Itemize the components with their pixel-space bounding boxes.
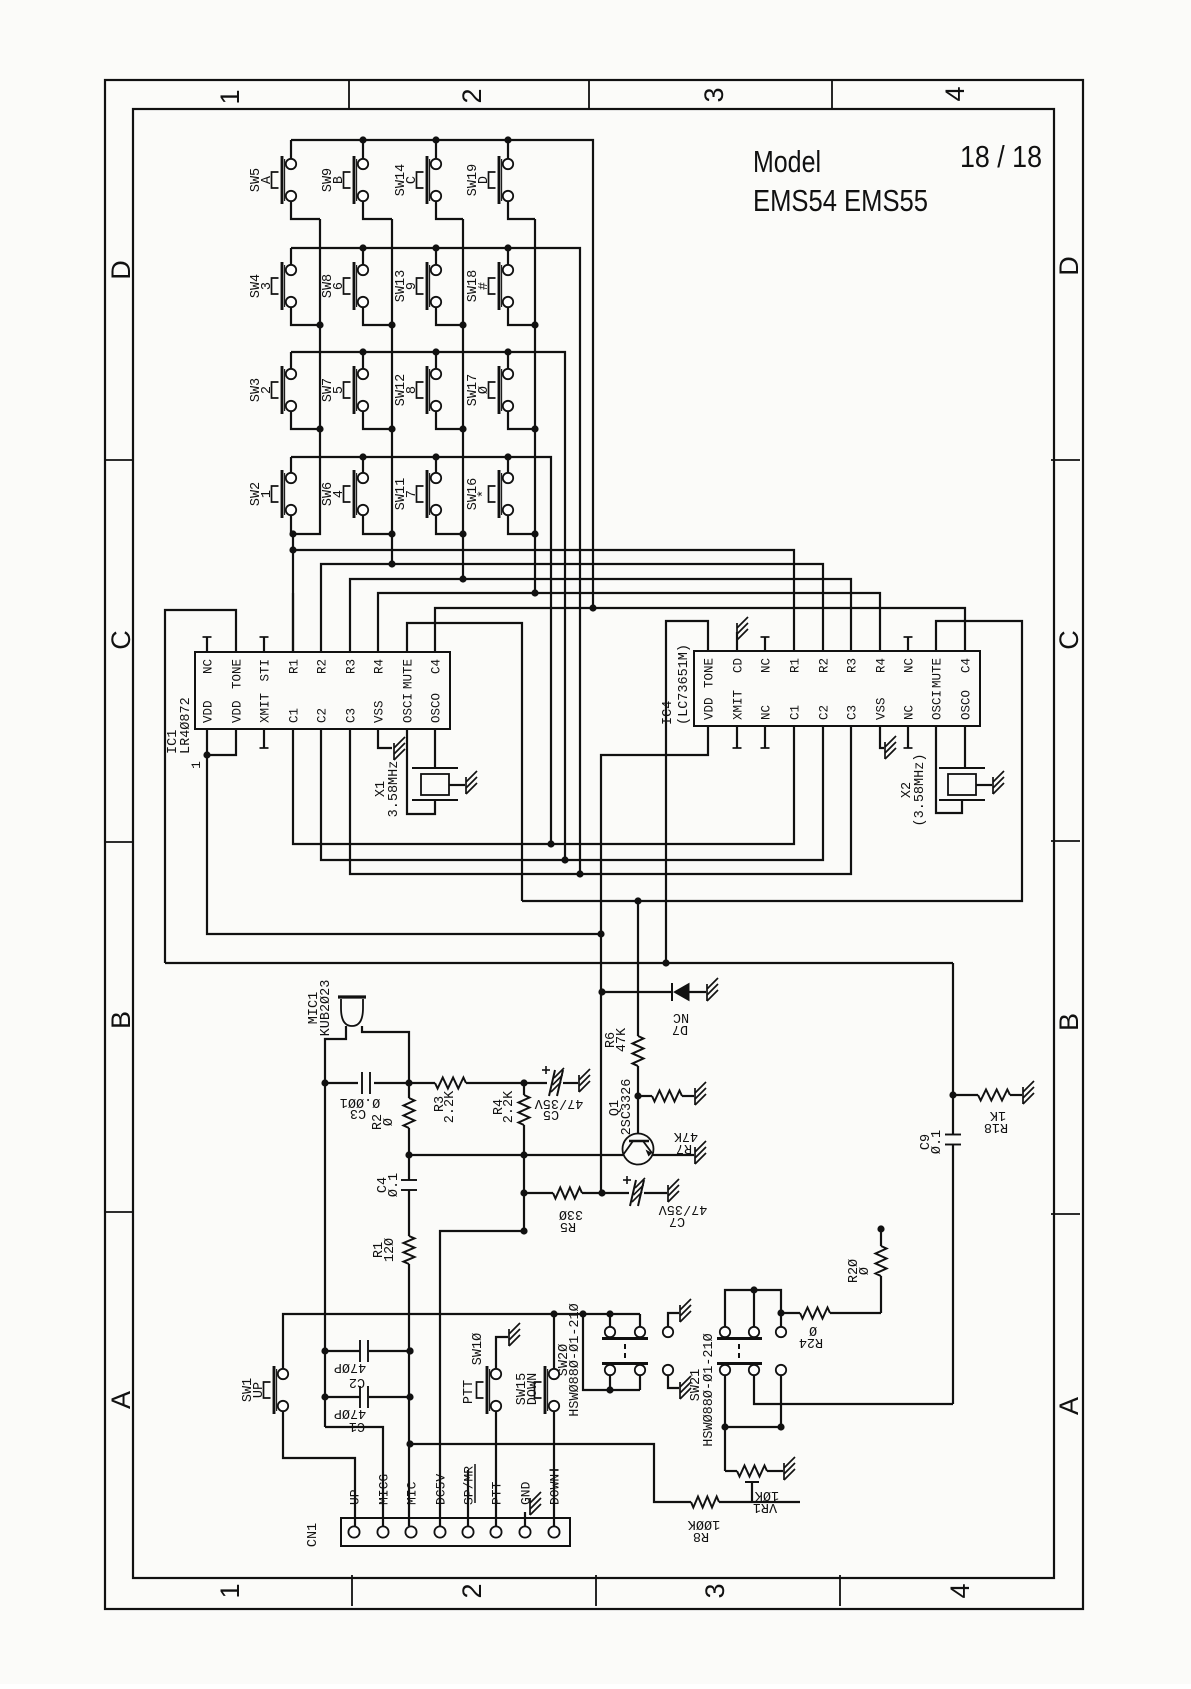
pin IC1 XMIT stub — [263, 729, 265, 748]
wire IC1 R3 riser and net R3 to IC4 — [350, 579, 851, 652]
wire SW7 bottom terminal jog — [363, 411, 392, 429]
switch SW12 key 8 — [426, 366, 429, 414]
wire SW5 bottom terminal jog — [291, 201, 320, 219]
svg-text:C4: C4 — [430, 659, 444, 674]
svg-text:CD: CD — [732, 658, 746, 673]
resistor R4 2.2K — [523, 1083, 525, 1095]
pin CN1 SP/MR — [462, 1526, 473, 1537]
svg-text:B: B — [332, 176, 347, 184]
wire C3 right lead — [374, 1082, 409, 1084]
wire R3 right lead — [466, 1082, 524, 1084]
junction SW11 on column line — [459, 530, 466, 537]
svg-text:C2: C2 — [349, 1374, 365, 1389]
svg-text:12Ø: 12Ø — [383, 1238, 398, 1262]
junction SW8 on row bus — [359, 244, 366, 251]
svg-text:VDD: VDD — [202, 700, 216, 723]
switch SW16 key * — [498, 470, 501, 518]
junction C2 left — [321, 1347, 328, 1354]
svg-text:4: 4 — [332, 490, 347, 498]
junction row bus4 on C1 net — [547, 840, 554, 847]
junction SW12 on row bus — [432, 348, 439, 355]
wire row bus 3 (keys 2 5 8 0) to C2 net — [291, 352, 565, 860]
wire SW18 bottom terminal jog — [508, 307, 535, 325]
svg-text:47ØP: 47ØP — [334, 1359, 366, 1374]
svg-text:3: 3 — [699, 87, 729, 102]
junction row bus3 on C2 net — [561, 856, 568, 863]
junction SW7 on column line — [388, 425, 395, 432]
svg-text:KUB2Ø23: KUB2Ø23 — [319, 980, 334, 1037]
resistor R6 47K — [633, 1036, 644, 1066]
junction SW6 on row bus — [359, 453, 366, 460]
capacitor C9 0.1 — [945, 1134, 961, 1136]
switch SW17 key Ø — [498, 366, 501, 414]
wire row bus 2 (keys 3 6 9 #) to C3 net — [291, 248, 580, 874]
svg-text:47K: 47K — [615, 1027, 630, 1052]
svg-text:2SC3326: 2SC3326 — [620, 1079, 635, 1136]
wire VR1 feed — [724, 1427, 726, 1471]
pin IC4 NC stub top1 — [764, 637, 766, 651]
wire R7 lead — [638, 1095, 652, 1097]
tick DOWN wire — [550, 1469, 559, 1471]
VR1 wiper — [745, 1481, 759, 1483]
junction SW18 on column line — [531, 321, 538, 328]
wire X1 case tap — [449, 784, 465, 786]
wire IC1 R1 pin riser — [292, 593, 294, 652]
ground R18 — [1022, 1087, 1024, 1104]
svg-text:2: 2 — [260, 386, 275, 394]
junction SW13 on column line — [459, 321, 466, 328]
wire TONE net bottom to SW21 — [754, 1375, 953, 1404]
wire row bus 1 (keys A B C D) to C4 net — [291, 140, 593, 608]
wire SW21 third pair — [780, 1313, 782, 1327]
wire IC1 MUTE riser and route down — [407, 623, 522, 901]
junction MIC line at C2 — [406, 1347, 413, 1354]
wire SW21 top bus — [725, 1290, 781, 1327]
svg-text:MUTE: MUTE — [402, 659, 416, 689]
switch SW21 link dashed — [738, 1344, 740, 1360]
svg-text:C5: C5 — [543, 1106, 559, 1121]
junction SW18 on row bus — [504, 244, 511, 251]
switch SW1 UP — [273, 1366, 276, 1414]
junction SW21 third top to R24 — [777, 1309, 784, 1316]
pin CN1 DC5V — [434, 1526, 445, 1537]
junction MICG node at C3 — [321, 1079, 328, 1086]
wire SW6 top terminal to row bus — [362, 457, 364, 473]
svg-text:EMS54 EMS55: EMS54 EMS55 — [753, 183, 928, 218]
wire IC4 OSCO route — [964, 726, 966, 768]
svg-text:VSS: VSS — [373, 700, 387, 723]
wire SW1 bottom terminal to CN1 UP — [283, 1411, 355, 1526]
wire SW8 top terminal to row bus — [362, 248, 364, 265]
wire SW2 top terminal to row bus — [290, 457, 292, 473]
wire base line — [409, 1154, 623, 1156]
wire column line 1 (R1 net) — [293, 219, 320, 534]
resistor R24 0 — [781, 1312, 800, 1314]
svg-text:C7: C7 — [669, 1213, 685, 1228]
switch SW20 lower contacts — [605, 1365, 615, 1375]
wire SW11 bottom terminal jog — [436, 515, 463, 534]
svg-text:C3: C3 — [350, 1105, 366, 1120]
ground VR1 — [783, 1463, 785, 1480]
switch SW21 lower contacts — [720, 1365, 730, 1375]
resistor R18 1K — [978, 1090, 1010, 1101]
svg-text:1: 1 — [189, 761, 204, 769]
wire MIC to R8 line — [410, 1444, 691, 1502]
resistor R8 100K — [691, 1497, 719, 1508]
wire SW19 top terminal to row bus — [507, 140, 509, 159]
wire IC1 C1 pin route — [293, 729, 551, 844]
wire VDD vertical to audio section — [600, 934, 602, 1193]
svg-text:MUTE: MUTE — [931, 658, 945, 688]
svg-text:TONE: TONE — [231, 659, 245, 689]
wire VDD rail down and right — [207, 755, 601, 934]
junction SW11 on row bus — [432, 453, 439, 460]
junction SW14 on row bus — [432, 136, 439, 143]
wire R3 left lead — [409, 1082, 435, 1084]
wire R4 node to DC5V node — [523, 1155, 525, 1231]
junction SW17 on column line — [531, 425, 538, 432]
wire VR1 left lead — [725, 1470, 737, 1472]
svg-text:NC: NC — [760, 705, 774, 720]
wire row bus 4 (keys 1 4 7 *) to C1 net — [291, 457, 551, 844]
switch SW20 link dashed — [624, 1344, 626, 1360]
junction SW16 on column line — [531, 530, 538, 537]
wire SW9 bottom terminal jog — [363, 201, 392, 219]
svg-text:R1: R1 — [288, 659, 302, 674]
pin CN1 UP — [348, 1526, 359, 1537]
pin IC1 NC stub — [206, 637, 208, 652]
capacitor C3 0.001 — [361, 1072, 363, 1094]
svg-text:R3: R3 — [345, 659, 359, 674]
svg-text:C1: C1 — [349, 1418, 365, 1433]
wire SW15 bottom terminal to CN1 DOWN — [553, 1411, 555, 1526]
junction R4 node on base line — [520, 1151, 527, 1158]
zone divider ticks right strip — [1051, 459, 1080, 461]
switch SW14 key C — [426, 156, 429, 204]
svg-text:C3: C3 — [846, 705, 860, 720]
svg-text:C4: C4 — [960, 658, 974, 673]
svg-text:B: B — [1054, 1013, 1084, 1031]
svg-text:C2: C2 — [316, 708, 330, 723]
svg-text:OSCO: OSCO — [430, 693, 444, 723]
wire SW3 top terminal to row bus — [290, 352, 292, 369]
wire IC1 OSCI route — [407, 729, 435, 814]
svg-text:Ø: Ø — [858, 1267, 873, 1275]
wire C7 to ground — [644, 1192, 667, 1194]
wire R6 to Q1 collector — [637, 1066, 639, 1134]
wire column line 1 lower segment to R1 pin — [292, 534, 294, 652]
svg-text:C: C — [405, 176, 420, 184]
switch SW11 key 7 — [426, 470, 429, 518]
junction SW6 on column line — [388, 530, 395, 537]
svg-text:2: 2 — [457, 1583, 487, 1598]
junction SW12 on column line — [459, 425, 466, 432]
svg-text:C: C — [1054, 630, 1084, 650]
svg-text:HSWØ88Ø-Ø1-21Ø: HSWØ88Ø-Ø1-21Ø — [702, 1333, 717, 1446]
wire SW13 top terminal to row bus — [435, 248, 437, 265]
wire SW21 lower link — [725, 1426, 781, 1428]
switch SW13 key 9 — [426, 262, 429, 310]
junction VDD bracket — [203, 751, 210, 758]
svg-text:47ØP: 47ØP — [334, 1405, 366, 1420]
switch SW6 key 4 — [353, 470, 356, 518]
pin CN1 MIC — [405, 1526, 416, 1537]
svg-text:Model: Model — [753, 144, 821, 179]
svg-text:XMIT: XMIT — [732, 689, 746, 720]
svg-text:5: 5 — [332, 386, 347, 394]
svg-text:R7: R7 — [676, 1140, 692, 1155]
wire IC1 R2 riser and net R2 to IC4 — [321, 564, 823, 652]
svg-text:OSCI: OSCI — [931, 690, 945, 720]
svg-text:18 / 18: 18 / 18 — [960, 139, 1042, 174]
svg-text:R4: R4 — [373, 659, 387, 674]
svg-text:NC: NC — [202, 659, 216, 674]
ground X1 case — [465, 777, 467, 794]
switch SW4 key 3 — [281, 262, 284, 310]
junction MIC node at C3 — [405, 1079, 412, 1086]
svg-text:HSWØ88Ø-Ø1-21Ø: HSWØ88Ø-Ø1-21Ø — [568, 1303, 583, 1416]
junction SW8 on column line — [388, 321, 395, 328]
svg-text:VDD: VDD — [703, 697, 717, 720]
wire SW8 bottom terminal jog — [363, 307, 392, 325]
junction column4 on R4 net — [531, 589, 538, 596]
svg-text:LR4Ø872: LR4Ø872 — [179, 697, 194, 754]
junction R2/C4 node on base line — [405, 1151, 412, 1158]
microphone MIC1 KUB2023 — [338, 995, 366, 998]
junction SW19 on row bus — [504, 136, 511, 143]
ground IC1 VSS — [393, 743, 395, 760]
wire SW5 top terminal to row bus — [290, 140, 292, 159]
junction DC5V node — [520, 1227, 527, 1234]
wire C5 lead — [524, 1082, 547, 1084]
junction SW16 on row bus — [504, 453, 511, 460]
svg-text:VSS: VSS — [875, 697, 889, 720]
wire column line 3 (R3 net) — [462, 219, 464, 579]
zone divider ticks left strip — [105, 459, 133, 461]
wire MICG vertical — [324, 1083, 326, 1427]
svg-text:STI: STI — [259, 659, 273, 682]
wire SW2 bottom terminal jog — [290, 515, 292, 534]
svg-text:1: 1 — [215, 1583, 245, 1598]
junction SW13 on row bus — [432, 244, 439, 251]
wire MICG jog to CN1 — [325, 1427, 383, 1526]
junction SW17 on row bus — [504, 348, 511, 355]
ground D7 — [706, 984, 708, 1001]
junction SW20 left riser — [579, 1310, 586, 1317]
wire column line 2 (R2 net) — [391, 219, 393, 564]
wire select bus to SW20 — [554, 1313, 640, 1315]
svg-text:NC: NC — [903, 658, 917, 673]
svg-text:DC5V: DC5V — [434, 1474, 449, 1505]
wire IC1 C3 pin route — [350, 729, 580, 874]
switch SW21 HSW0880-01-210 upper contacts — [720, 1327, 730, 1337]
junction SW20 lower-left contact — [606, 1386, 613, 1393]
svg-text:R1: R1 — [789, 658, 803, 673]
wire IC1 C4 riser and net C4 to IC4 — [435, 608, 965, 652]
svg-text:A: A — [1054, 1397, 1084, 1415]
svg-text:2: 2 — [457, 88, 487, 103]
crystal X2 (3.58MHz) — [939, 767, 985, 769]
wire SW4 top terminal to row bus — [290, 248, 292, 265]
svg-text:Ø.1: Ø.1 — [387, 1173, 402, 1197]
pin IC1 STI stub — [263, 637, 265, 652]
wire SW13 bottom terminal jog — [436, 307, 463, 325]
junction VDD end at C7 node — [598, 1189, 605, 1196]
svg-text:3: 3 — [260, 282, 275, 290]
wire MIC1 left lead — [325, 1026, 346, 1083]
svg-text:R8: R8 — [693, 1528, 709, 1543]
wire IC4 CD to ground — [736, 632, 738, 651]
diode D7 (NC) — [671, 983, 673, 1001]
wire net C3 to IC4 — [580, 726, 851, 874]
wire SW16 bottom terminal jog — [508, 515, 535, 534]
svg-text:R2: R2 — [316, 659, 330, 674]
svg-text:SW1Ø: SW1Ø — [471, 1333, 486, 1365]
wire SW17 top terminal to row bus — [507, 352, 509, 369]
wire IC1 VDD pins bracket — [206, 729, 208, 755]
zone divider ticks bottom strip — [351, 1575, 353, 1606]
pin IC4 NC stub bottom2 — [907, 726, 909, 748]
ground IC4 VSS — [884, 742, 886, 759]
wire SW1 top terminal to select bus — [283, 1314, 554, 1369]
resistor R3 2.2K — [435, 1078, 466, 1089]
IC U1 box IC1 LR40872 — [195, 652, 450, 729]
switch SW3 key 2 — [281, 366, 284, 414]
wire MUTE to R6 — [637, 901, 639, 1036]
crystal X1 3.58MHz — [412, 767, 458, 769]
wire SW9 top terminal to row bus — [362, 140, 364, 159]
svg-text:PTT: PTT — [490, 1481, 505, 1505]
svg-text:#: # — [477, 282, 492, 290]
svg-text:MIC: MIC — [405, 1481, 420, 1505]
switch SW20 HSW0880-01-210 upper contacts — [609, 1314, 611, 1327]
svg-text:8: 8 — [405, 386, 420, 394]
wire SW19 bottom terminal jog — [508, 201, 535, 219]
wire IC1 VSS to ground — [378, 729, 392, 748]
pin CN1 MICG — [377, 1526, 388, 1537]
junction IC4 TONE on tone bus — [662, 959, 669, 966]
svg-text:*: * — [477, 490, 492, 498]
wire C5 to ground — [563, 1082, 578, 1084]
ground SW20 spare lower — [679, 1382, 681, 1399]
wire IC1 R4 riser and net R4 to IC4 — [378, 593, 880, 652]
junction SW15 top on select bus — [550, 1310, 557, 1317]
wire MIC1 right lead — [362, 1026, 409, 1083]
junction SW7 on row bus — [359, 348, 366, 355]
svg-text:6: 6 — [332, 282, 347, 290]
wire column line 4 (R4 net) — [534, 219, 536, 593]
svg-text:Ø: Ø — [382, 1118, 397, 1126]
svg-text:D: D — [106, 260, 136, 280]
svg-text:(LC73651M): (LC73651M) — [677, 644, 692, 725]
wire CN1 GND stub — [524, 1512, 526, 1526]
zone divider ticks top strip — [348, 80, 350, 109]
capacitor C2 470P — [325, 1350, 360, 1352]
svg-text:VDD: VDD — [231, 700, 245, 723]
wire IC4 VDD riser — [601, 726, 708, 934]
svg-text:NC: NC — [903, 705, 917, 720]
wire SW18 top terminal to row bus — [507, 248, 509, 265]
wire SW11 top terminal to row bus — [435, 457, 437, 473]
junction R5 left node — [520, 1189, 527, 1196]
svg-text:Ø: Ø — [477, 386, 492, 394]
capacitor C4 0.1 — [408, 1155, 410, 1180]
junction C1 right — [406, 1393, 413, 1400]
pin IC4 XMIT stub — [736, 726, 738, 748]
svg-text:DOWN: DOWN — [548, 1474, 563, 1505]
svg-text:(3.58MHz): (3.58MHz) — [913, 754, 928, 827]
border inner drawing frame — [133, 109, 1054, 1578]
junction R1 branch — [289, 546, 296, 553]
wire R8 to VR1 wiper node — [719, 1501, 800, 1503]
resistor R2 0 — [404, 1098, 415, 1128]
wire SW20 left riser to lower loop — [583, 1314, 640, 1390]
svg-text:UP: UP — [348, 1489, 363, 1505]
ground CN1 GND — [529, 1498, 531, 1515]
switch SW5 key A — [281, 156, 284, 204]
capacitor C1 470P — [325, 1396, 360, 1398]
svg-text:4: 4 — [940, 86, 970, 101]
svg-text:PTT: PTT — [462, 1380, 477, 1404]
IC U4 box IC4 LC73651M — [694, 651, 980, 726]
junction SW21 lower link right — [777, 1423, 784, 1430]
wire TONE net right riser down — [952, 963, 954, 1134]
svg-text:A: A — [106, 1391, 136, 1409]
switch SW10 PTT — [486, 1366, 489, 1414]
wire IC1 OSCO route — [434, 729, 436, 768]
wire SW16 top terminal to row bus — [507, 457, 509, 473]
svg-text:R4: R4 — [875, 658, 889, 673]
junction column2 on R2 net — [388, 560, 395, 567]
svg-text:2.2K: 2.2K — [443, 1090, 458, 1123]
connector CN1 — [341, 1518, 570, 1546]
switch SW7 key 5 — [353, 366, 356, 414]
wire DC5V riser — [440, 1231, 524, 1526]
junction Q1 collector node — [634, 1092, 641, 1099]
wire Q1 emitter to ground — [652, 1154, 694, 1156]
wire SW4 bottom terminal jog — [291, 307, 320, 325]
wire C3 left lead — [325, 1082, 358, 1084]
wire C7 lead — [602, 1192, 629, 1194]
junction SW4 on column line — [316, 321, 323, 328]
overline SP/MR — [474, 1464, 476, 1503]
resistor R5 330 — [524, 1192, 553, 1194]
junction SW3 on column line — [316, 425, 323, 432]
wire SW12 bottom terminal jog — [436, 411, 463, 429]
svg-text:C: C — [106, 630, 136, 650]
svg-text:R2: R2 — [818, 658, 832, 673]
svg-text:R3: R3 — [846, 658, 860, 673]
wire IC4 OSCI route — [936, 726, 962, 813]
svg-text:VR1: VR1 — [753, 1499, 777, 1514]
switch SW15 DOWN — [544, 1366, 547, 1414]
wire SW21 lower-left to VR1 — [724, 1375, 726, 1427]
pin IC4 NC stub bottom1 — [764, 726, 766, 748]
transistor Q1 2SC3326 — [623, 1134, 654, 1165]
switch SW19 key D — [498, 156, 501, 204]
wire TONE bus horizontal — [165, 962, 953, 964]
border outer frame — [105, 80, 1083, 1609]
junction R6 top on MUTE net — [634, 897, 641, 904]
svg-text:D: D — [1054, 256, 1084, 276]
svg-text:B: B — [106, 1011, 136, 1029]
svg-text:DOWN: DOWN — [526, 1373, 541, 1405]
wire SW6 bottom terminal jog — [363, 515, 392, 534]
svg-text:3: 3 — [700, 1583, 730, 1598]
wire IC1 TONE route left — [165, 610, 236, 963]
pin CN1 GND — [519, 1526, 530, 1537]
ground IC4 CD — [736, 623, 738, 640]
